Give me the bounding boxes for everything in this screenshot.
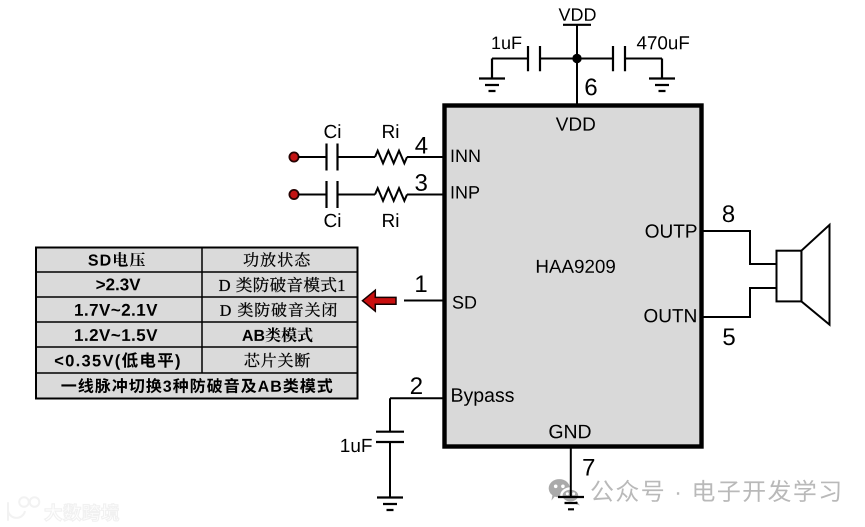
op-amp/IC U1 HAA9209 body bbox=[445, 106, 702, 447]
resistor Ri (INN) bbox=[375, 151, 407, 164]
VDD net label bbox=[559, 8, 596, 20]
wire Bypass to pin 2 bbox=[390, 397, 444, 399]
Ci label (INP) bbox=[325, 213, 341, 227]
Ri label (INP) bbox=[383, 213, 398, 227]
ground (C3) bbox=[377, 498, 403, 511]
ground (C2) bbox=[649, 59, 675, 92]
node input INP (red terminal) bbox=[289, 190, 298, 199]
table cell 1.7V~2.1V bbox=[75, 304, 157, 316]
table cell D类防破音关闭 bbox=[220, 302, 336, 317]
U1 part number HAA9209 bbox=[537, 260, 615, 273]
wire OUTN pin 5 to speaker bbox=[702, 288, 776, 317]
U1 pin label INN bbox=[452, 150, 480, 162]
wire INN dot to Ci bbox=[298, 156, 327, 158]
Ci label (INN) bbox=[325, 124, 341, 138]
wire SD to pin 1 bbox=[404, 300, 444, 302]
ground (C1) bbox=[479, 59, 505, 92]
wire Ci to Ri (INP) bbox=[338, 194, 376, 196]
capacitor Ci (INP) plates bbox=[327, 181, 338, 208]
pin number 1 bbox=[416, 276, 426, 293]
U1 pin label GND bbox=[549, 425, 590, 439]
Ri label (INN) bbox=[383, 124, 398, 138]
wire OUTP pin 8 to speaker bbox=[702, 231, 776, 264]
VDD bar bbox=[563, 24, 591, 26]
capacitor C3 1uF plates bbox=[376, 432, 404, 442]
C2 value 470uF bbox=[637, 36, 689, 49]
watermark logo (bottom-left, faint) bbox=[8, 497, 39, 520]
node input INN (red terminal) bbox=[289, 152, 298, 161]
pin number 4 bbox=[415, 137, 427, 154]
wire Ri to pin 3 bbox=[407, 194, 444, 196]
pin number 6 bbox=[586, 78, 597, 95]
capacitor Ci (INN) plates bbox=[327, 144, 338, 171]
table header cell SD电压 bbox=[88, 252, 145, 267]
capacitor C2 470uF plates bbox=[613, 46, 625, 71]
node junction dot bbox=[572, 54, 581, 63]
pin number 5 bbox=[723, 329, 734, 346]
U1 pin label OUTP bbox=[646, 224, 697, 238]
wire decoupling rail bbox=[492, 58, 662, 60]
wire VDD to pin 6 bbox=[576, 25, 578, 105]
SD mode arrow (red) bbox=[363, 290, 397, 311]
speaker LS1 bbox=[801, 225, 829, 325]
C1 value 1uF bbox=[492, 37, 521, 50]
pin number 8 bbox=[723, 205, 734, 222]
table cell 1.2V~1.5V bbox=[75, 329, 157, 341]
wire Ci to Ri bbox=[338, 156, 376, 158]
wire Bypass down to C3 bbox=[389, 398, 391, 431]
table cell <0.35V(低电平) bbox=[55, 352, 180, 369]
pin number 2 bbox=[411, 377, 422, 394]
ground (pin 7) bbox=[558, 497, 584, 509]
table cell AB类模式 bbox=[242, 327, 312, 342]
SD voltage mode table bbox=[36, 248, 358, 399]
U1 pin label VDD bbox=[556, 118, 595, 131]
table cell >2.3V bbox=[96, 278, 140, 290]
wire C3 to ground bbox=[389, 442, 391, 498]
wire INP dot to Ci bbox=[298, 194, 327, 196]
U1 pin label INP bbox=[452, 186, 479, 198]
C3 value 1uF bbox=[341, 439, 372, 452]
wire Ri to pin 4 bbox=[407, 156, 444, 158]
watermark text 公众号·电子开发学习 bbox=[591, 480, 839, 502]
table header cell 功放状态 bbox=[244, 252, 310, 267]
U1 pin label OUTN bbox=[644, 309, 695, 323]
capacitor C1 1uF plates bbox=[528, 46, 540, 71]
table cell D类防破音模式1 bbox=[219, 277, 344, 292]
table footer row 一线脉冲切换3种防破音及AB类模式 bbox=[61, 378, 332, 393]
pin number 3 bbox=[415, 174, 426, 191]
pin number 7 bbox=[583, 459, 594, 476]
watermark WeChat icon bbox=[549, 479, 580, 505]
wire GND pin 7 bbox=[570, 448, 572, 497]
U1 pin label SD bbox=[453, 296, 476, 309]
table cell 芯片关断 bbox=[245, 353, 310, 368]
U1 pin label Bypass bbox=[452, 388, 514, 405]
resistor Ri (INP) bbox=[375, 188, 407, 201]
